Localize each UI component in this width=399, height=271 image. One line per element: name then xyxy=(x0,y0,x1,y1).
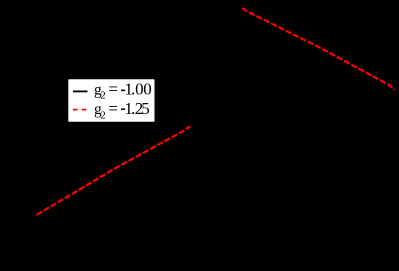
svg-text:=: = xyxy=(108,99,118,118)
svg-text:2: 2 xyxy=(100,110,106,122)
svg-text:1.00: 1.00 xyxy=(124,79,151,98)
svg-text:2: 2 xyxy=(100,90,106,102)
svg-text:=: = xyxy=(108,79,118,98)
svg-text:1.25: 1.25 xyxy=(124,99,149,118)
